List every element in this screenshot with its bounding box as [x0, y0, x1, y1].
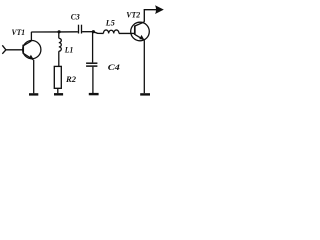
- capacitor C4: [86, 63, 97, 66]
- capacitor C3: [79, 25, 82, 34]
- wire C4 bottom lead: [92, 67, 94, 93]
- svg-text:C3: C3: [71, 13, 80, 22]
- svg-text:VT2: VT2: [126, 11, 140, 20]
- transistor VT2: [131, 22, 150, 41]
- wire emitter VT1 down: [33, 60, 35, 94]
- wire L5 to base of VT2: [119, 32, 135, 34]
- wire C4 top lead: [92, 32, 94, 63]
- inductor L5: [103, 30, 118, 33]
- ground bar under VT1 emitter: [29, 93, 38, 95]
- wire R2 bottom lead: [57, 88, 59, 93]
- transistor VT1: [23, 41, 41, 60]
- node C4 junction dot: [92, 30, 95, 33]
- wire input to base of VT1: [6, 49, 23, 51]
- ground bar under C4: [89, 93, 99, 95]
- top rail wire: [31, 31, 78, 33]
- wire collector VT2 to output: [144, 10, 158, 22]
- wire L1 to R2: [58, 51, 60, 66]
- output terminal arrow: [155, 5, 164, 14]
- node L1 junction dot: [58, 30, 61, 33]
- resistor R2: [54, 66, 61, 88]
- wire C3 to C4 junction: [82, 31, 93, 33]
- wire collector VT1 up to rail: [30, 32, 32, 41]
- inductor L1: [59, 38, 62, 51]
- svg-text:L1: L1: [64, 46, 73, 55]
- ground bar under VT2 emitter: [140, 93, 150, 95]
- ground bar under R2: [54, 93, 63, 95]
- wire L1 top lead: [58, 32, 60, 38]
- wire junction to L5: [93, 32, 103, 34]
- svg-text:L5: L5: [105, 19, 115, 28]
- svg-text:VT1: VT1: [12, 28, 26, 37]
- svg-text:C4: C4: [108, 63, 120, 72]
- svg-text:R2: R2: [65, 75, 76, 84]
- wire emitter VT2 down: [143, 40, 145, 93]
- input terminal arrow: [2, 45, 6, 54]
